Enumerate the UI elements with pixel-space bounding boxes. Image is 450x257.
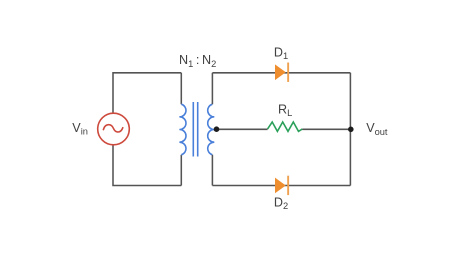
node: center tap junction — [214, 126, 220, 132]
resistor RL — [268, 122, 303, 131]
wire: top rail through D1 — [212, 72, 350, 74]
svg-text:Vin: Vin — [72, 121, 88, 137]
transformer core line 2 — [197, 102, 199, 157]
wire: primary top lead down to winding — [180, 73, 182, 104]
diode D2 — [275, 176, 289, 195]
diode D1 — [275, 63, 289, 82]
AC source V1 (Vin) — [98, 113, 130, 145]
svg-text:Vout: Vout — [366, 121, 388, 137]
node: Vout junction — [348, 127, 354, 133]
wire: primary loop top (Vin to primary winding) — [113, 73, 181, 186]
wire: primary bottom lead — [180, 155, 182, 186]
transformer T1 secondary winding — [208, 104, 215, 155]
wire: center tap to resistor — [216, 128, 268, 130]
svg-text:D2: D2 — [274, 196, 288, 212]
wire: right rail — [349, 73, 351, 186]
wire: bottom rail through D2 — [212, 185, 350, 187]
transformer T1 primary winding — [179, 104, 186, 155]
svg-text:RL: RL — [278, 102, 292, 118]
wire: secondary bottom lead — [211, 155, 213, 186]
transformer core line 1 — [192, 102, 194, 157]
wire: resistor to output node — [302, 128, 350, 130]
wire: secondary top lead — [211, 73, 213, 104]
svg-text:D1: D1 — [274, 46, 288, 62]
svg-text:N1:N2: N1:N2 — [179, 53, 216, 69]
